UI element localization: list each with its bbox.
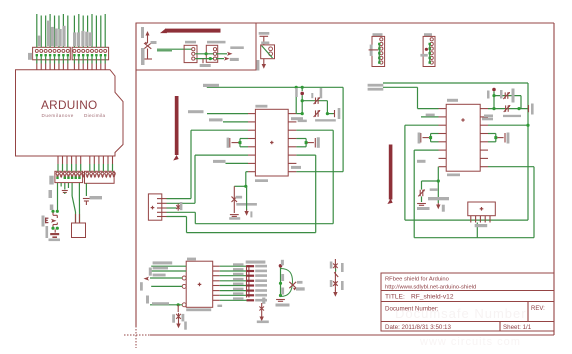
svg-text:www circuits com: www circuits com [419,336,521,348]
svg-text:RFbee shield for Arduino: RFbee shield for Arduino [385,277,449,283]
svg-text:Diecimila: Diecimila [84,113,105,118]
svg-text:Document Number:: Document Number: [385,306,439,313]
svg-text:RF_shield-v12: RF_shield-v12 [411,294,454,301]
svg-text:REV:: REV: [531,306,545,312]
svg-text:Date: 2011/8/31 3:50:13: Date: 2011/8/31 3:50:13 [385,324,451,331]
svg-text:TITLE:: TITLE: [385,294,405,301]
svg-text:Duemilanove: Duemilanove [42,113,74,118]
svg-text:ARDUINO: ARDUINO [41,98,98,112]
svg-text:Sheet: 1/1: Sheet: 1/1 [503,324,532,331]
svg-text:http://www.sdlybl.net-arduino-: http://www.sdlybl.net-arduino-shield [385,285,476,291]
